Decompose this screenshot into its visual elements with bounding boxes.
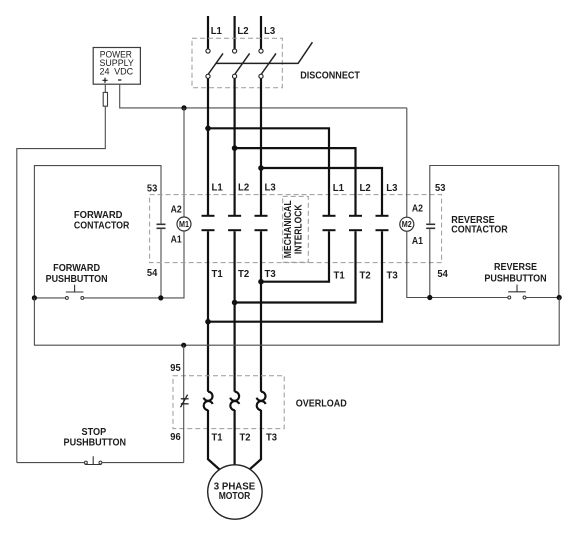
wire forward T1 down to overload	[207, 231, 209, 392]
fuse F1	[103, 92, 107, 106]
terminal +	[102, 78, 107, 83]
svg-text:T2: T2	[240, 432, 251, 443]
svg-text:L2: L2	[238, 182, 250, 193]
svg-text:L2: L2	[237, 26, 249, 37]
junction rev PB left / 54	[427, 295, 432, 300]
main contact M1 pole3	[255, 216, 268, 230]
coil M1	[177, 217, 191, 231]
disconnect pole 3	[259, 49, 276, 79]
crossover reverse T2 to forward T2	[235, 231, 356, 302]
aux contact 53-54 M2	[426, 223, 435, 225]
svg-text:STOP: STOP	[82, 427, 107, 438]
main contact M2 pole1	[323, 216, 336, 230]
svg-text:MOTOR: MOTOR	[219, 491, 251, 502]
wire PS- minus rail	[120, 84, 407, 108]
svg-text:PUSHBUTTON: PUSHBUTTON	[484, 274, 546, 285]
mechanical interlock dashed box	[283, 196, 309, 262]
svg-text:L3: L3	[386, 183, 398, 194]
svg-text:L3: L3	[264, 26, 276, 37]
wire forward T2 down to overload	[234, 231, 236, 392]
svg-text:FORWARD: FORWARD	[74, 210, 123, 221]
supply stub L3	[260, 16, 262, 49]
motor M	[208, 465, 262, 519]
svg-text:T1: T1	[334, 271, 346, 282]
svg-text:A1: A1	[412, 236, 423, 247]
svg-text:T3: T3	[387, 271, 399, 282]
junction fwd PB left	[32, 295, 37, 300]
wire M2 A1 to pushbutton node	[407, 231, 430, 297]
svg-text:CONTACTOR: CONTACTOR	[451, 225, 508, 236]
main contact M1 pole2	[228, 216, 241, 230]
feeder wire to reverse L3	[261, 168, 382, 215]
feeder wire to reverse L1	[208, 128, 329, 215]
junction feeder L2	[232, 145, 238, 151]
svg-text:PUSHBUTTON: PUSHBUTTON	[64, 438, 127, 449]
svg-text:L1: L1	[212, 182, 224, 193]
svg-text:FORWARD: FORWARD	[53, 263, 100, 274]
junction crossover T1	[205, 319, 211, 325]
wire overload contact line	[183, 345, 185, 462]
svg-text:DISCONNECT: DISCONNECT	[300, 70, 360, 81]
main contact M2 pole3	[376, 216, 389, 230]
svg-text:L3: L3	[265, 182, 277, 193]
reverse pushbutton NO	[430, 285, 559, 299]
crossover reverse T3 to forward T1	[208, 231, 382, 322]
wire disconnect L2 down	[234, 79, 236, 216]
svg-text:T3: T3	[266, 432, 277, 443]
svg-text:OVERLOAD: OVERLOAD	[296, 398, 347, 409]
overload trip contact	[181, 395, 189, 408]
svg-text:T1: T1	[212, 432, 223, 443]
wire M2 A2	[406, 108, 408, 217]
terminal -	[118, 79, 121, 81]
disconnect dashed enclosure	[192, 38, 282, 87]
stop pushbutton NC	[17, 456, 184, 464]
motor lead T3	[250, 410, 262, 470]
junction fwd PB right / 54	[158, 295, 163, 300]
motor lead T2	[234, 410, 236, 465]
junction crossover T2	[232, 300, 238, 306]
overload dashed box	[173, 376, 284, 429]
reverse contactor loop right edge	[430, 166, 559, 298]
svg-text:M2: M2	[402, 220, 412, 229]
control return wire	[34, 298, 559, 346]
svg-text:95: 95	[170, 363, 181, 374]
svg-text:T2: T2	[360, 271, 372, 282]
svg-text:24 VDC: 24 VDC	[100, 66, 134, 76]
svg-text:53: 53	[435, 183, 446, 194]
overload heater 3	[257, 392, 266, 401]
forward pushbutton NO	[34, 285, 160, 300]
disconnect pole 1	[206, 49, 223, 79]
coil M2	[400, 217, 414, 231]
wire forward T3 down to overload	[260, 231, 262, 392]
big dashed box contactors	[150, 195, 442, 263]
forward contactor loop left edge	[34, 166, 161, 298]
junction crossover T3	[258, 279, 264, 285]
wire fuse to left rail	[17, 106, 106, 462]
svg-text:L2: L2	[360, 183, 372, 194]
junction rev PB right	[557, 295, 562, 300]
main contact M1 pole1	[202, 216, 215, 230]
svg-text:CONTACTOR: CONTACTOR	[74, 221, 130, 232]
wire M1 A2	[183, 108, 185, 217]
svg-text:REVERSE: REVERSE	[494, 262, 537, 273]
power supply PS1 box	[93, 48, 140, 85]
aux contact 53-54 M1	[157, 223, 166, 225]
svg-text:96: 96	[170, 432, 181, 443]
supply stub L2	[234, 16, 236, 49]
svg-text:54: 54	[437, 269, 448, 280]
svg-text:L1: L1	[211, 26, 223, 37]
junction feeder L3	[258, 165, 264, 171]
svg-text:MECHANICAL: MECHANICAL	[283, 200, 294, 258]
main contact M2 pole2	[349, 216, 362, 230]
svg-text:T2: T2	[238, 269, 250, 280]
svg-text:54: 54	[147, 268, 158, 279]
disconnect pole 2	[233, 49, 250, 79]
feeder wire to reverse L2	[235, 148, 356, 215]
svg-text:T1: T1	[212, 269, 224, 280]
junction feeder L1	[205, 126, 211, 132]
crossover reverse T1 to forward T3	[261, 231, 329, 282]
svg-text:INTERLOCK: INTERLOCK	[293, 204, 304, 254]
svg-text:T3: T3	[265, 269, 277, 280]
svg-text:L1: L1	[333, 183, 345, 194]
svg-text:PUSHBUTTON: PUSHBUTTON	[46, 274, 108, 285]
svg-text:A1: A1	[171, 234, 182, 245]
wire PS+ to fuse	[104, 84, 106, 92]
overload heater 2	[230, 392, 239, 401]
disconnect tie bar and handle	[216, 42, 313, 63]
overload heater 1	[204, 392, 213, 401]
motor lead T1	[208, 410, 220, 470]
wire M1 A1 to pushbutton node	[161, 231, 184, 298]
supply stub L1	[207, 16, 209, 49]
junction M1 coil tap	[181, 105, 186, 110]
wire disconnect L1 down	[207, 79, 209, 216]
junction overload 95 tap	[181, 343, 186, 348]
svg-text:53: 53	[147, 183, 158, 194]
svg-text:A2: A2	[412, 204, 423, 215]
svg-text:A2: A2	[171, 204, 182, 215]
wire disconnect L3 down	[260, 79, 262, 216]
svg-text:M1: M1	[179, 220, 189, 229]
